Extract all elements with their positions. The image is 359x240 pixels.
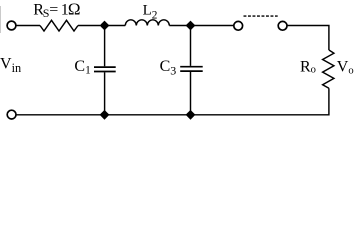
terminal input top (open circle): [7, 21, 16, 30]
inductor L2: [125, 20, 169, 26]
capacitor C3 bottom plate: [180, 70, 203, 72]
node A junction dot: [100, 21, 110, 31]
wire capacitor C1 to node C: [104, 72, 106, 115]
node C junction dot: [100, 110, 110, 120]
resistor RS: [40, 20, 78, 31]
resistor Ro: [323, 50, 334, 88]
terminal break right (open circle): [278, 21, 287, 30]
node D junction dot: [186, 110, 196, 120]
wire top-left to resistor RS: [16, 25, 40, 27]
svg-text:RS=1Ω: RS=1Ω: [33, 0, 80, 20]
node B junction dot: [186, 21, 196, 31]
capacitor C1 bottom plate: [94, 71, 116, 73]
terminal break left (open circle): [234, 21, 243, 30]
wire node B down to capacitor C3: [190, 26, 192, 66]
wire node B to break terminal left: [191, 25, 234, 27]
scan artifact left edge: [0, 6, 2, 33]
wire capacitor C3 to node D: [190, 72, 192, 115]
capacitor C1 top plate: [94, 66, 116, 68]
wire break terminal right to top-right corner: [287, 26, 329, 51]
wire node A to inductor L2: [105, 25, 126, 27]
dashed continuation line: [244, 15, 278, 17]
wire resistor Ro to bottom-right corner: [16, 88, 329, 115]
terminal input bottom (open circle): [7, 110, 16, 119]
wire resistor RS to node A: [78, 25, 100, 27]
wire node A down to capacitor C1: [104, 26, 106, 67]
capacitor C3 top plate: [180, 66, 203, 68]
wire inductor L2 to node B: [169, 25, 190, 27]
